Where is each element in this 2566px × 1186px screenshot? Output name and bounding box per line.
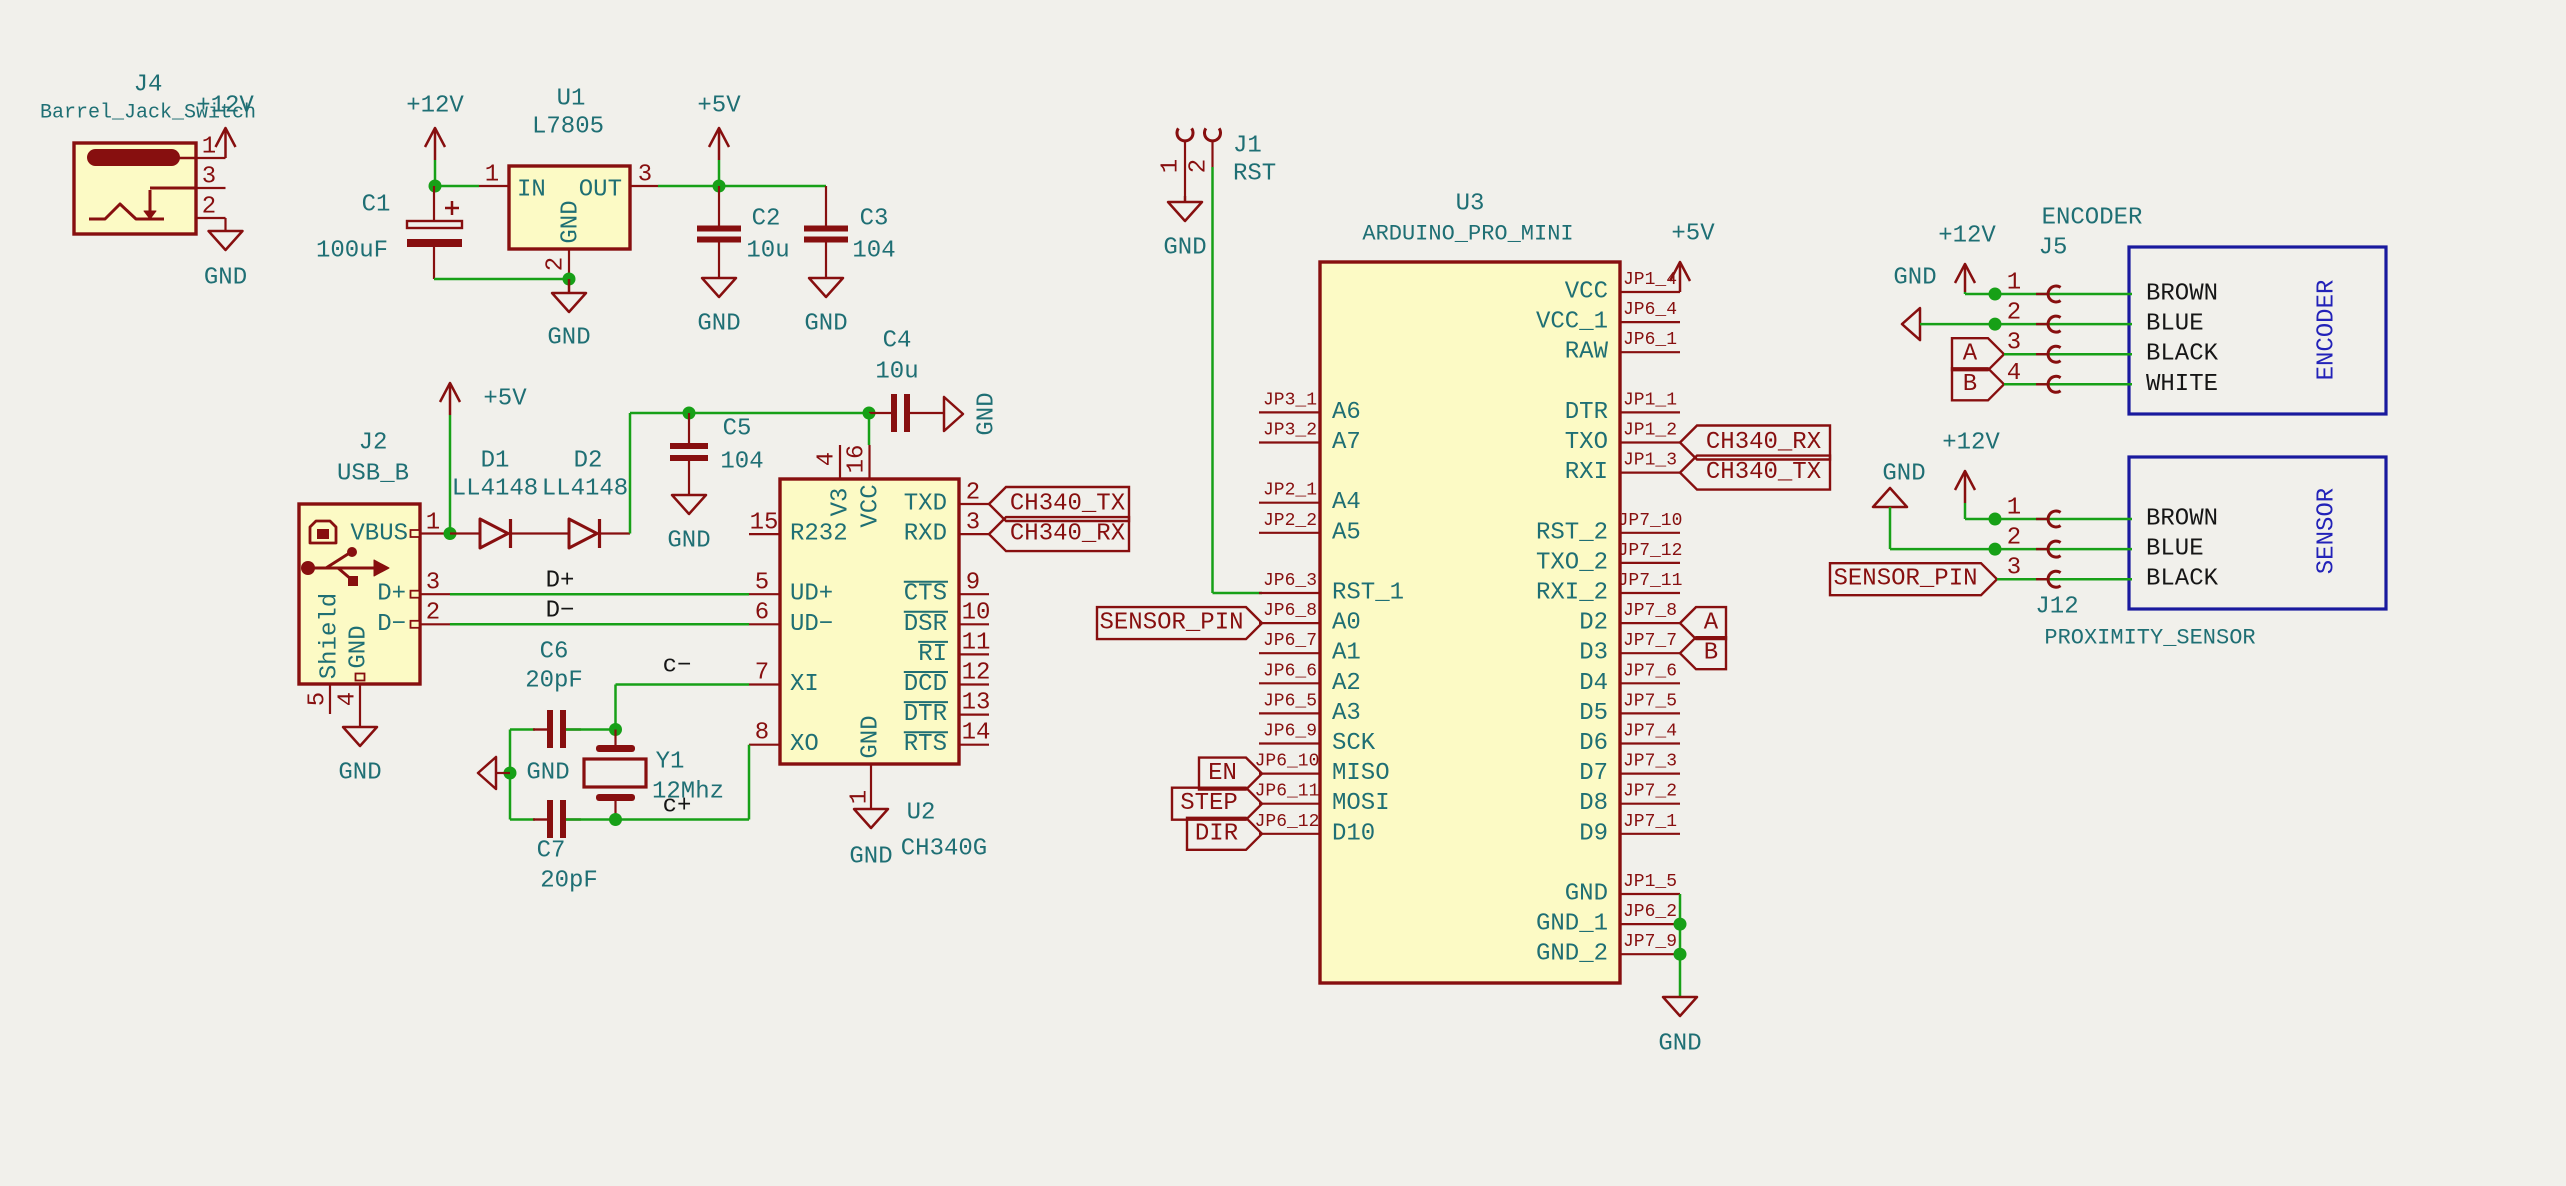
svg-text:MISO: MISO [1332,760,1390,787]
ENCODER wire name BLUE [2146,311,2204,338]
regulator U1 L7805 body [509,166,630,249]
svg-text:104: 104 [720,449,763,476]
svg-text:JP7_12: JP7_12 [1618,541,1683,561]
svg-text:+5V: +5V [697,93,741,120]
svg-text:RXI: RXI [1565,459,1608,486]
svg-text:SENSOR_PIN: SENSOR_PIN [1099,610,1243,637]
svg-text:JP6_8: JP6_8 [1263,601,1317,621]
svg-text:U1: U1 [557,86,586,113]
U2 pin 2 TXD [904,480,989,518]
svg-text:DIR: DIR [1195,820,1238,847]
U2 pin 9 ~CTS [904,570,989,608]
svg-text:5: 5 [755,570,769,597]
svg-text:DTR: DTR [904,701,947,728]
svg-text:RI: RI [918,641,947,668]
svg-text:JP1_1: JP1_1 [1623,390,1677,410]
U3 labels [1362,191,1573,247]
svg-text:D9: D9 [1579,820,1608,847]
ENCODER wire name WHITE [2146,371,2218,398]
J1 labels [1233,133,1276,188]
svg-text:A1: A1 [1332,640,1361,667]
svg-text:16: 16 [844,445,871,474]
svg-text:JP6_11: JP6_11 [1255,782,1320,802]
global label CH340_RX at U2 RXD [989,517,1129,551]
svg-text:J5: J5 [2039,235,2068,262]
D1 labels [452,448,538,503]
svg-text:GND: GND [804,311,847,338]
svg-text:JP6_2: JP6_2 [1623,902,1677,922]
J5 labels [2039,205,2143,262]
ground at U3 [1658,997,1701,1058]
junction at C5 [683,407,696,420]
svg-text:D−: D− [546,598,575,625]
svg-text:3: 3 [202,164,216,191]
svg-text:RST_1: RST_1 [1332,580,1404,607]
ground at J1 [1163,196,1206,262]
svg-text:VBUS: VBUS [350,521,408,548]
svg-text:7: 7 [755,660,769,687]
power +5V at U3 VCC [1670,221,1715,293]
svg-text:D−: D− [377,611,406,638]
svg-text:2: 2 [543,257,570,271]
svg-text:SCK: SCK [1332,730,1376,757]
svg-text:CH340_RX: CH340_RX [1706,429,1821,456]
svg-text:D7: D7 [1579,760,1608,787]
svg-text:GND: GND [858,715,885,758]
svg-text:GND: GND [346,625,373,668]
wire XI to crystal (c-) [616,685,750,730]
svg-text:2: 2 [2007,525,2021,552]
svg-text:JP7_8: JP7_8 [1623,601,1677,621]
junction at U1 pin2 / C1 / GND [563,273,576,286]
svg-text:JP6_5: JP6_5 [1263,691,1317,711]
J2 labels [337,430,409,488]
global label B at J5 pin 4 [1952,368,2004,400]
svg-text:4: 4 [2007,360,2021,387]
svg-text:3: 3 [426,570,440,597]
Y1 labels [652,749,724,806]
svg-text:1: 1 [2007,270,2021,297]
svg-text:JP1_5: JP1_5 [1623,872,1677,892]
svg-text:RXD: RXD [904,521,947,548]
J2 Shield pin name [317,593,344,679]
global label EN at U3 MISO [1199,758,1262,790]
capacitor C4 (10u) horizontal [869,394,944,432]
U3 pin JP7_4 (D6) [1579,722,1680,758]
power +12V at J12 [1942,430,2000,518]
U3 pin JP3_2 (A7) [1259,421,1361,457]
J12 pin 3 [2007,555,2061,587]
U1 pin 2 [543,249,570,279]
svg-text:DCD: DCD [904,671,947,698]
svg-text:JP7_11: JP7_11 [1618,571,1683,591]
svg-text:10u: 10u [875,359,918,386]
svg-text:1: 1 [202,134,216,161]
U3 pin JP6_6 (A2) [1259,661,1361,697]
svg-text:JP1_4: JP1_4 [1623,270,1677,290]
svg-text:1: 1 [426,510,440,537]
SENSOR wire name BLUE [2146,536,2204,563]
IC U3 ARDUINO_PRO_MINI body [1320,262,1620,983]
ENCODER wire name BLACK [2146,341,2219,368]
svg-text:JP1_3: JP1_3 [1623,451,1677,471]
SENSOR wire name BROWN [2146,506,2218,533]
svg-text:BROWN: BROWN [2146,281,2218,308]
svg-text:JP7_7: JP7_7 [1623,631,1677,651]
U3 pin JP6_4 (VCC_1) [1536,300,1680,336]
svg-text:Shield: Shield [317,593,344,679]
svg-text:JP7_4: JP7_4 [1623,722,1677,742]
svg-text:ARDUINO_PRO_MINI: ARDUINO_PRO_MINI [1362,222,1573,247]
J5 pin 3 [2007,330,2061,362]
wire +12V to J12 pin 1 [1965,517,2132,519]
power +12V at J5 [1938,223,1996,293]
svg-text:C1: C1 [362,192,391,219]
ENCODER wire name BROWN [2146,281,2218,308]
U3 pin JP3_1 (A6) [1259,390,1361,426]
svg-text:IN: IN [517,177,546,204]
svg-text:RST_2: RST_2 [1536,519,1608,546]
junction at J5 pin 1 [1989,288,2002,301]
svg-text:JP3_2: JP3_2 [1263,421,1317,441]
svg-text:+5V: +5V [1671,221,1715,248]
svg-text:5: 5 [305,692,332,706]
C2 labels [746,206,789,265]
wire GND to J12 pin 2 [1890,507,2132,549]
svg-text:3: 3 [2007,330,2021,357]
crystal Y1 12Mhz [584,730,646,820]
U3 pin JP7_12 (TXO_2) [1536,541,1682,577]
ground at C3 [804,278,847,338]
wire crystal to XO (c+) [616,745,750,820]
U3 pin JP7_5 (D5) [1579,691,1680,727]
svg-text:A: A [1963,341,1978,368]
ground at C4 (right-pointing) [944,392,1001,435]
svg-text:J2: J2 [359,430,388,457]
svg-text:GND_1: GND_1 [1536,911,1608,938]
svg-text:20pF: 20pF [525,668,583,695]
wire SENSOR_PIN to J12 pin 3 [1997,578,2132,581]
svg-text:C5: C5 [723,416,752,443]
connector J4 Barrel_Jack_Switch body [74,143,196,234]
svg-text:PROXIMITY_SENSOR: PROXIMITY_SENSOR [2044,626,2255,651]
J4 pin 1 [196,134,226,161]
diode D1 LL4148 [450,519,569,548]
U3 pin JP6_2 (GND_1) [1536,902,1680,938]
svg-text:CH340_RX: CH340_RX [1010,521,1125,548]
svg-text:11: 11 [962,630,991,657]
wire C1 to U1 GND pin [434,278,569,281]
svg-text:CH340_TX: CH340_TX [1010,491,1125,518]
J2 GND pin name [346,625,373,668]
svg-text:JP7_6: JP7_6 [1623,661,1677,681]
svg-text:+12V: +12V [196,93,254,120]
svg-text:BLACK: BLACK [2146,341,2219,368]
svg-text:JP2_2: JP2_2 [1263,511,1317,531]
svg-text:GND: GND [547,325,590,352]
svg-text:2: 2 [1186,159,1213,173]
svg-text:10u: 10u [746,238,789,265]
U2 pin 7 XI [749,660,819,699]
svg-text:CH340_TX: CH340_TX [1706,459,1821,486]
svg-text:JP6_12: JP6_12 [1255,812,1320,832]
svg-text:SENSOR: SENSOR [2314,488,2341,574]
U3 pin JP1_5 (GND) [1565,872,1680,908]
svg-text:JP6_7: JP6_7 [1263,631,1317,651]
U3 pin JP1_2 (TXO) [1565,421,1680,457]
junction at U3 GND_2 [1674,948,1687,961]
svg-text:C2: C2 [752,206,781,233]
svg-text:c+: c+ [663,793,692,820]
svg-text:GND: GND [338,760,381,787]
U2 pin 4 V3 [814,445,855,516]
global label CH340_TX at U3 RXI [1680,456,1830,490]
net label D- [546,598,575,625]
SENSOR wire name BLACK [2146,566,2219,593]
svg-text:XI: XI [790,671,819,698]
junction at left rail / GND [504,767,517,780]
svg-text:Y1: Y1 [656,749,685,776]
J5 pin 4 [2007,360,2061,393]
svg-text:JP6_6: JP6_6 [1263,661,1317,681]
ground at U1 [547,279,590,352]
J4 pin 2 [196,194,226,232]
U1 pin 1 IN [479,162,546,204]
svg-text:GND: GND [697,311,740,338]
power +5V at U1 output [697,93,741,187]
junction at J5 pin 2 [1989,318,2002,331]
svg-text:D+: D+ [546,568,575,595]
svg-text:A3: A3 [1332,700,1361,727]
svg-text:GND: GND [1658,1031,1701,1058]
U2 pin 1 GND [847,764,874,809]
svg-text:12: 12 [962,660,991,687]
global label CH340_RX at U3 TXO [1680,426,1830,460]
global label A at U3 D2 [1680,607,1726,639]
U3 pin JP6_3 (RST_1) [1259,571,1404,607]
junction at C7 / Y1 / XO [609,813,622,826]
C4 labels [875,328,918,386]
connector J2 USB_B body [299,504,420,684]
svg-text:JP6_4: JP6_4 [1623,300,1677,320]
U2 reference and value [901,800,987,863]
U1 labels [532,86,604,141]
svg-text:GND: GND [1882,461,1925,488]
svg-text:104: 104 [852,238,895,265]
svg-text:OUT: OUT [579,177,622,204]
U3 pin JP6_1 (RAW) [1565,330,1680,366]
wire +12V to J5 pin 1 [1965,292,2132,294]
power +12V at U1 input [406,93,464,187]
svg-text:RTS: RTS [904,731,947,758]
svg-text:+12V: +12V [1938,223,1996,250]
svg-text:GND: GND [974,392,1001,435]
junction at J12 pin 1 [1989,513,2002,526]
svg-text:D4: D4 [1579,670,1608,697]
svg-text:EN: EN [1208,760,1237,787]
svg-text:JP6_10: JP6_10 [1255,752,1320,772]
ground at J5 (left-pointing) [1893,265,1936,341]
J2 pin 1 VBUS [350,510,450,548]
svg-text:A: A [1704,610,1719,637]
svg-text:D8: D8 [1579,790,1608,817]
svg-text:VCC: VCC [858,484,885,527]
ENCODER note text [2314,280,2341,381]
capacitor C5 (104) [670,413,708,495]
global label B at U3 D3 [1680,637,1726,669]
svg-text:B: B [1704,640,1718,667]
U3 pin JP1_1 (DTR) [1565,390,1680,426]
svg-text:JP7_1: JP7_1 [1623,812,1677,832]
junction at C6 / XI / Y1 [609,723,622,736]
svg-text:V3: V3 [828,488,855,517]
U3 pin JP6_10 (MISO) [1255,752,1390,788]
svg-text:JP7_3: JP7_3 [1623,752,1677,772]
svg-text:A5: A5 [1332,519,1361,546]
U3 pin JP2_1 (A4) [1259,481,1361,517]
U3 pin JP6_11 (MOSI) [1255,782,1390,818]
U3 pin JP6_8 (A0) [1259,601,1361,637]
D2 labels [542,448,628,503]
U3 pin JP7_9 (GND_2) [1536,932,1680,968]
ground at C2 [697,278,740,338]
svg-text:1: 1 [847,790,874,804]
capacitor C3 (104) [804,186,848,278]
svg-text:+12V: +12V [1942,430,2000,457]
svg-text:TXD: TXD [904,491,947,518]
svg-text:2: 2 [966,480,980,507]
svg-text:D2: D2 [1579,610,1608,637]
wire D2 cathode up to +5V rail [630,413,869,534]
U2 pin 5 UD+ [749,570,833,608]
svg-text:GND: GND [1893,265,1936,292]
wire A to J5 pin 3 [2004,353,2132,356]
C6 labels [525,639,583,695]
J5 pin 1 [2007,270,2061,303]
capacitor C1 (100uF polarized) [407,186,462,279]
global label A at J5 pin 3 [1952,338,2004,370]
svg-text:RST: RST [1233,161,1276,188]
U3 pin JP7_10 (RST_2) [1536,511,1682,547]
note box ENCODER [2129,247,2386,414]
svg-text:4: 4 [814,452,841,466]
svg-text:MOSI: MOSI [1332,790,1390,817]
svg-text:JP7_10: JP7_10 [1618,511,1683,531]
svg-text:10: 10 [962,600,991,627]
svg-text:GND: GND [204,265,247,292]
C1 labels [316,192,390,265]
wire +5V rail to U2 VCC pin [868,413,871,445]
U3 pin JP6_9 (SCK) [1259,722,1376,758]
svg-text:C3: C3 [860,206,889,233]
U3 pin JP6_5 (A3) [1259,691,1361,727]
junction at C4 / U2 VCC [863,407,876,420]
global label SENSOR_PIN at J12 pin 3 [1830,563,1997,595]
svg-text:U2: U2 [907,800,936,827]
power +5V at USB VBUS [440,383,527,533]
svg-text:JP2_1: JP2_1 [1263,481,1317,501]
U3 pin JP7_6 (D4) [1579,661,1680,697]
diode D2 LL4148 [569,519,630,548]
junction at U3 GND_1 [1674,918,1687,931]
SENSOR note text [2314,488,2341,574]
svg-text:1: 1 [485,162,499,189]
U2 pin 11 ~RI [918,630,990,668]
svg-text:JP1_2: JP1_2 [1623,421,1677,441]
junction at +12V / C1 / U1-IN [429,180,442,193]
J12 pin 2 [2007,525,2061,557]
svg-text:CH340G: CH340G [901,836,987,863]
svg-text:CTS: CTS [904,581,947,608]
svg-text:VCC_1: VCC_1 [1536,309,1608,336]
svg-text:2: 2 [202,194,216,221]
U3 pin JP7_7 (D3) [1579,631,1680,667]
svg-text:JP6_9: JP6_9 [1263,722,1317,742]
svg-text:GND_2: GND_2 [1536,941,1608,968]
svg-text:GND: GND [849,844,892,871]
junction at VBUS / +5V [444,527,457,540]
svg-text:TXO_2: TXO_2 [1536,549,1608,576]
svg-text:J12: J12 [2035,594,2078,621]
svg-text:JP7_5: JP7_5 [1623,691,1677,711]
svg-text:D3: D3 [1579,640,1608,667]
svg-text:RXI_2: RXI_2 [1536,580,1608,607]
svg-text:TXO: TXO [1565,429,1608,456]
U3 pin JP6_12 (D10) [1255,812,1376,848]
svg-text:100uF: 100uF [316,238,388,265]
J5 pin 2 [2007,300,2061,333]
svg-text:GND: GND [558,200,585,243]
wire D+ net [450,593,749,596]
svg-text:D+: D+ [377,581,406,608]
svg-text:3: 3 [2007,555,2021,582]
global label CH340_TX at U2 TXD [989,487,1129,521]
svg-text:A2: A2 [1332,670,1361,697]
note box SENSOR [2129,457,2386,609]
wire U3 GND pins to ground [1679,894,1682,997]
svg-text:6: 6 [755,600,769,627]
svg-text:DTR: DTR [1565,399,1608,426]
U2 pin 8 XO [749,720,819,759]
svg-text:USB_B: USB_B [337,461,409,488]
svg-text:D1: D1 [481,448,510,475]
svg-text:1: 1 [2007,495,2021,522]
svg-text:XO: XO [790,731,819,758]
svg-text:WHITE: WHITE [2146,371,2218,398]
U3 pin JP7_3 (D7) [1579,752,1680,788]
svg-text:UD+: UD+ [790,581,833,608]
svg-text:R232: R232 [790,521,848,548]
svg-text:BROWN: BROWN [2146,506,2218,533]
svg-text:J1: J1 [1233,133,1262,160]
svg-text:RAW: RAW [1565,339,1609,366]
svg-text:GND: GND [1565,881,1608,908]
U2 pin 14 ~RTS [904,720,991,759]
svg-text:D5: D5 [1579,700,1608,727]
U3 pin JP7_11 (RXI_2) [1536,571,1682,607]
svg-text:GND: GND [526,760,569,787]
svg-text:U3: U3 [1456,191,1485,218]
svg-text:3: 3 [638,162,652,189]
wire +12V to U1 IN [435,185,479,188]
svg-text:D10: D10 [1332,820,1375,847]
svg-text:LL4148: LL4148 [542,476,628,503]
J4 pin 3 [150,164,226,191]
svg-text:JP3_1: JP3_1 [1263,390,1317,410]
svg-text:ENCODER: ENCODER [2314,280,2341,381]
U2 pin 13 ~DTR [904,690,991,729]
capacitor C2 (10u) [697,186,741,278]
